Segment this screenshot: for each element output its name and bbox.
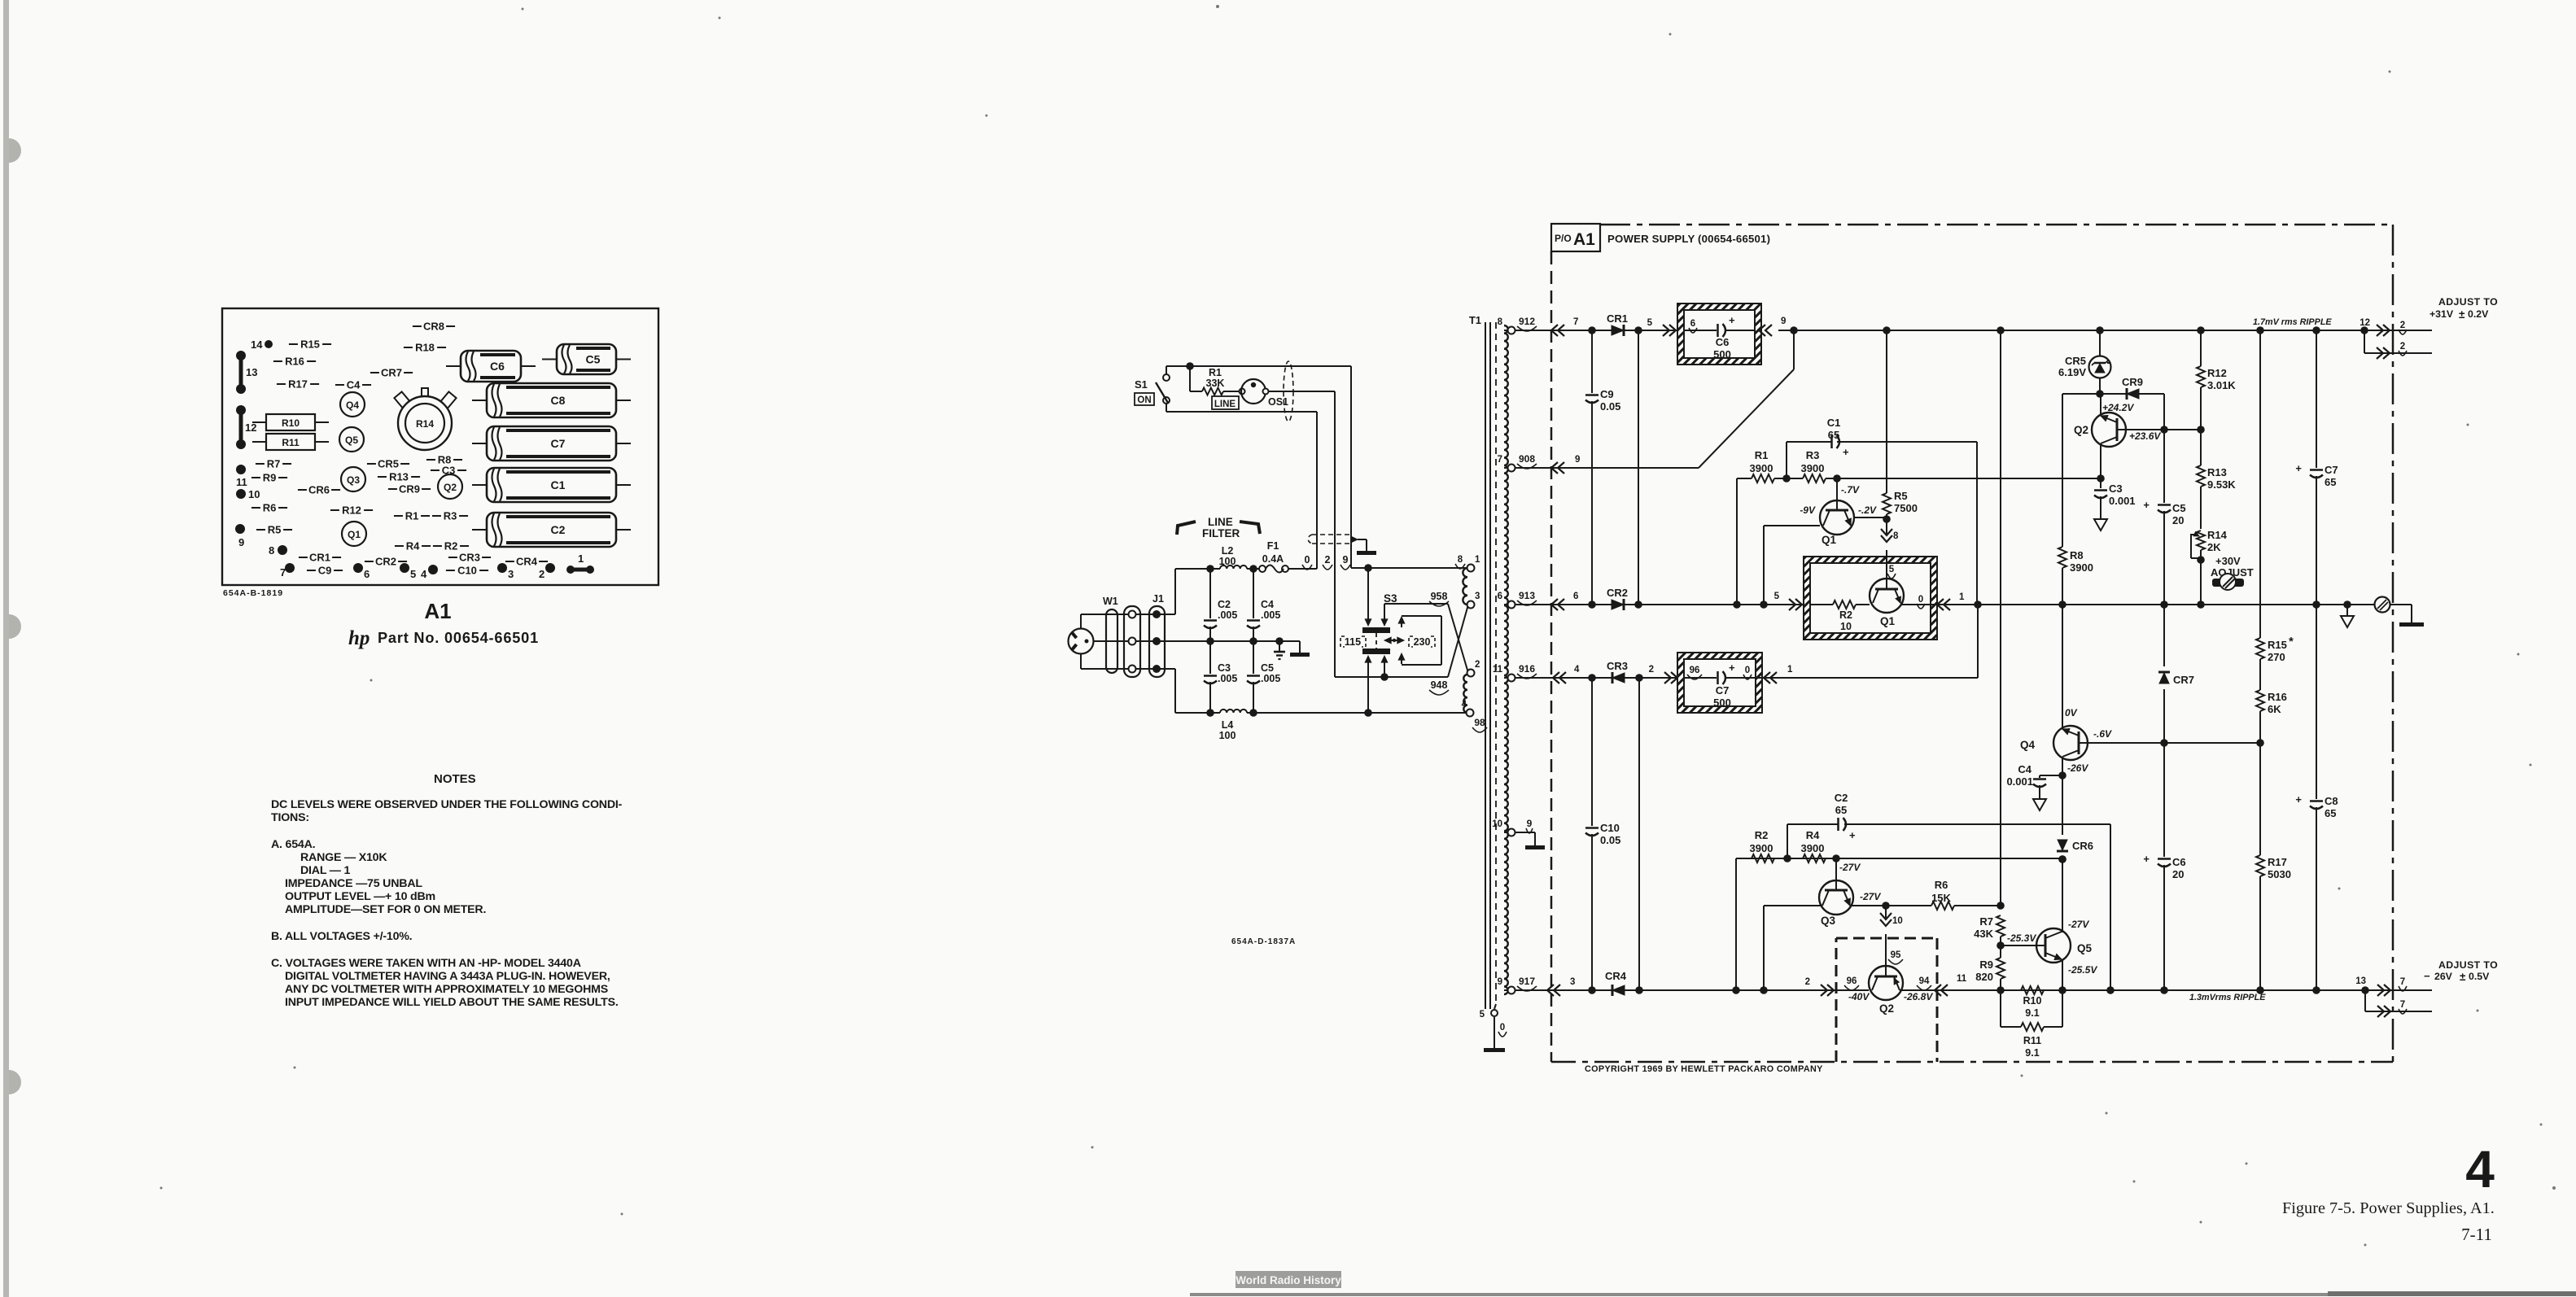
svg-text:FILTER: FILTER [1202, 527, 1240, 539]
connector chevron wire 4 [1559, 672, 1566, 683]
S3 wire from rail down to upper bar [1367, 568, 1369, 623]
board transistor Q2 [438, 474, 462, 499]
junction L4 rail S3 column [1364, 709, 1372, 717]
svg-text:916: 916 [1519, 663, 1535, 675]
resistor R16 6K [2256, 690, 2264, 711]
junction R1 R3 [1782, 474, 1791, 483]
wire R7 feed column [2000, 330, 2001, 904]
svg-text:OUTPUT LEVEL —+ 10 dBm: OUTPUT LEVEL —+ 10 dBm [285, 890, 435, 903]
svg-text:ADJUST TO: ADJUST TO [2438, 959, 2498, 971]
svg-text:11: 11 [236, 476, 247, 488]
connector chevron wire 10 down [1880, 913, 1892, 919]
svg-text:0: 0 [1500, 1023, 1505, 1033]
transformer tap pin 11 wire 916 [1504, 677, 1509, 679]
svg-text:10: 10 [1892, 916, 1903, 926]
wire 908 row and diagonal to +31 rail [1515, 467, 1699, 469]
wire Q1 collector to R5 node [1854, 517, 1887, 518]
svg-text:R9: R9 [1979, 959, 1993, 971]
label ON boxed [1135, 393, 1154, 405]
svg-text:.005: .005 [1261, 673, 1280, 684]
chassis screw terminal [2375, 597, 2390, 613]
capacitor C4 0.001 to ground [2040, 775, 2062, 776]
transistor Q2 (driver) [2092, 413, 2126, 447]
svg-text:-.7V: -.7V [1841, 484, 1860, 496]
svg-text:R7: R7 [267, 458, 281, 470]
svg-text:3: 3 [1570, 977, 1575, 987]
svg-text:C2: C2 [551, 523, 566, 536]
svg-text:917: 917 [1519, 976, 1535, 987]
svg-text:1: 1 [578, 552, 584, 565]
transformer shield pin 5 to ground [1494, 1004, 1496, 1009]
svg-text:Q5: Q5 [2077, 942, 2093, 954]
diode CR7 [2163, 605, 2165, 666]
wire Q1 base row to Q2 collector [1837, 478, 2100, 479]
svg-text:CR4: CR4 [516, 556, 538, 568]
junction CR4 column [1635, 986, 1643, 994]
svg-text:C6: C6 [490, 360, 505, 373]
svg-text:2: 2 [1649, 665, 1654, 675]
svg-text:R15: R15 [2268, 639, 2287, 651]
svg-text:R6: R6 [1935, 879, 1948, 891]
svg-text:+: + [2143, 499, 2150, 511]
svg-text:96: 96 [1847, 976, 1857, 986]
wire +31V rail [1794, 330, 2364, 331]
svg-text:L2: L2 [1222, 545, 1234, 557]
svg-text:Q5: Q5 [345, 435, 358, 446]
svg-text:C5: C5 [586, 353, 601, 366]
junction -26 rail C8col [2312, 986, 2320, 994]
svg-text:5: 5 [1889, 565, 1895, 574]
junction Q5 base [1997, 941, 2005, 950]
junction -26 output corner [2361, 986, 2369, 994]
resistor R1 33K [1189, 366, 1191, 391]
svg-text:Q4: Q4 [2020, 739, 2036, 751]
svg-text:3900: 3900 [1801, 842, 1825, 854]
svg-text:11: 11 [1957, 974, 1967, 984]
svg-text:8: 8 [269, 544, 274, 557]
svg-text:3900: 3900 [1750, 842, 1773, 854]
transformer core lines [1485, 322, 1486, 1009]
filter earth ground [1275, 637, 1284, 645]
wire Q3 collector to R6 [1852, 905, 1886, 906]
svg-text:R2: R2 [1755, 829, 1769, 841]
svg-text:6.19V: 6.19V [2058, 366, 2086, 378]
svg-text:R5: R5 [268, 524, 282, 536]
diode CR2 [1612, 600, 1624, 609]
page bottom edge shadow [1190, 1293, 2576, 1296]
svg-text:A1: A1 [424, 599, 451, 623]
svg-text:9: 9 [1343, 554, 1349, 566]
capacitor C2 (board) [487, 513, 616, 547]
svg-text:R13: R13 [2207, 466, 2227, 478]
junction C9 bottom [1588, 600, 1596, 609]
svg-text:9.1: 9.1 [2025, 1007, 2039, 1019]
svg-text:8: 8 [1458, 555, 1463, 565]
wire CR9 row [2062, 393, 2100, 395]
svg-text:R14: R14 [416, 418, 434, 430]
binding notch 3 [9, 1070, 21, 1094]
diode CR6 [2058, 840, 2067, 850]
svg-text:S3: S3 [1384, 592, 1397, 605]
wire 1 return to 0V rail [1756, 677, 1978, 679]
svg-text:C1: C1 [551, 478, 566, 491]
capacitor C5 .005 [1253, 641, 1254, 674]
svg-text:15K: 15K [1931, 892, 1951, 904]
svg-text:5030: 5030 [2268, 868, 2291, 880]
svg-text:0.5V: 0.5V [2469, 971, 2490, 982]
svg-text:0V: 0V [2065, 707, 2078, 718]
wire Q3 base row [1736, 858, 2064, 859]
svg-text:7: 7 [1573, 317, 1578, 327]
junction -26 rail R10R11 [2058, 986, 2066, 994]
svg-text:R12: R12 [2207, 367, 2227, 379]
svg-text:8: 8 [1893, 531, 1899, 541]
svg-text:Q1: Q1 [1822, 534, 1837, 546]
svg-text:Q2: Q2 [2074, 424, 2088, 436]
svg-text:-27V: -27V [1860, 891, 1881, 902]
jack J1 face [1124, 606, 1140, 677]
svg-text:±: ± [2460, 971, 2466, 983]
connector chevron wire 2 (916 row) [1664, 672, 1671, 683]
wire fuse to riser [1288, 568, 1317, 570]
svg-text:820: 820 [1975, 971, 1993, 983]
junction bottom C5 [1249, 709, 1257, 717]
svg-text:0.2V: 0.2V [2468, 308, 2489, 320]
wire R15 column upper [2259, 330, 2261, 638]
junction R2 3900 column base [1732, 986, 1740, 994]
svg-text:115: 115 [1345, 636, 1361, 648]
svg-text:7500: 7500 [1894, 502, 1918, 514]
svg-text:2: 2 [1325, 554, 1331, 566]
junction bottom C3 [1206, 709, 1214, 717]
resistor R2 10 [1810, 604, 1833, 605]
svg-text:LINE: LINE [1214, 400, 1236, 409]
svg-text:W1: W1 [1103, 596, 1118, 607]
plug W1 face [1069, 629, 1094, 654]
svg-text:500: 500 [1713, 348, 1731, 360]
svg-text:3: 3 [1475, 592, 1480, 601]
svg-text:ON: ON [1137, 395, 1151, 405]
junction -26 rail R17col [2256, 986, 2264, 994]
junction pin1 rail to S3 [1364, 564, 1372, 572]
connector chevron wire 5 (913 row) [1789, 599, 1795, 610]
capacitor C1 (board) [487, 468, 616, 502]
svg-text:Q3: Q3 [1821, 915, 1836, 927]
svg-text:20: 20 [2172, 868, 2184, 880]
wire CR6 to Q5 collector [2062, 859, 2063, 932]
A1 border left dashed [1550, 251, 1553, 1062]
+31V output second line [2364, 330, 2365, 353]
svg-text:11: 11 [1493, 665, 1503, 675]
svg-text:R8: R8 [2070, 549, 2084, 561]
junction mid C2 [1206, 637, 1214, 645]
svg-text:R13: R13 [389, 471, 409, 483]
S3 loop top edge [1384, 603, 1448, 605]
board pad 3 [497, 563, 507, 573]
junction R12 R13 [2197, 426, 2205, 434]
P/O A1 title box [1551, 224, 1600, 251]
junction C4 tee [2058, 771, 2066, 780]
svg-text:R4: R4 [1806, 829, 1820, 841]
S3 230 contact box [1402, 615, 1441, 617]
wire Q4 emitter down [2062, 758, 2063, 775]
resistor R2 3900 (lower) [1735, 858, 1737, 990]
junction R6 R7 [1997, 902, 2005, 910]
svg-text:95: 95 [1891, 950, 1901, 960]
svg-text:A1: A1 [1573, 230, 1595, 249]
chassis capacitor C6 500 hatched box [1677, 304, 1761, 365]
svg-text:R9: R9 [263, 472, 277, 484]
svg-text:CR9: CR9 [399, 483, 420, 496]
svg-text:2: 2 [1805, 977, 1810, 987]
junction Q3 base [1832, 854, 1840, 862]
wire Q2 base row [2126, 429, 2201, 430]
lamp shield dashed ellipse [1284, 361, 1293, 421]
svg-text:4: 4 [1574, 665, 1580, 675]
svg-text:R6: R6 [263, 502, 277, 514]
0V rail chassis ground [2390, 604, 2412, 605]
svg-text:AMPLITUDE—SET FOR 0 ON METER.: AMPLITUDE—SET FOR 0 ON METER. [285, 903, 486, 916]
plug W1 body [1106, 609, 1117, 673]
svg-text:-25.3V: -25.3V [2007, 932, 2036, 944]
junction Q3 out chevron10 [1882, 902, 1890, 910]
capacitor C4 .005 [1253, 569, 1254, 618]
svg-text:CR4: CR4 [1605, 970, 1627, 982]
svg-text:C8: C8 [2325, 795, 2338, 807]
capacitor C10 0.05 [1591, 678, 1593, 826]
svg-text:C1: C1 [1827, 417, 1841, 429]
resistor R11 9.1 parallel loop [2000, 990, 2001, 1027]
svg-text:6: 6 [364, 568, 370, 580]
svg-text:C8: C8 [551, 394, 566, 407]
fuse F1 0.4A [1259, 566, 1266, 572]
junction +31 CR5col [2096, 326, 2104, 334]
svg-text:-.6V: -.6V [2093, 728, 2112, 740]
board jumper 12 [236, 405, 246, 415]
svg-text:S1: S1 [1135, 378, 1148, 391]
svg-text:65: 65 [2325, 476, 2336, 488]
wire filter mid rail [1159, 640, 1300, 642]
S3 upper contact bar [1362, 627, 1390, 633]
wire 916 row [1515, 677, 1677, 679]
junction CR3 column [1635, 674, 1643, 682]
svg-text:7: 7 [1498, 455, 1502, 465]
capacitor C7 65 [2316, 330, 2317, 468]
svg-text:1: 1 [1475, 555, 1480, 565]
svg-text:.005: .005 [1261, 609, 1280, 621]
dust specks [1216, 5, 1219, 8]
junction R5 bottom [1883, 515, 1891, 523]
junction C9 top [1588, 326, 1596, 334]
shield ground arrow [1351, 536, 1358, 543]
svg-text:913: 913 [1519, 590, 1535, 601]
svg-text:908: 908 [1519, 453, 1535, 465]
svg-text:0.05: 0.05 [1600, 834, 1620, 846]
svg-text:5: 5 [1774, 592, 1780, 601]
label LINE boxed [1212, 396, 1239, 409]
svg-text:12: 12 [245, 421, 256, 434]
svg-text:-27V: -27V [2068, 919, 2089, 930]
svg-text:OS1: OS1 [1268, 396, 1288, 408]
wire plug to J1 middle [1093, 640, 1157, 642]
junction CR7 column rail [2160, 600, 2168, 609]
svg-text:3.01K: 3.01K [2207, 379, 2236, 391]
svg-text:NOTES: NOTES [434, 772, 476, 786]
svg-text:CR8: CR8 [423, 321, 444, 333]
svg-text:7-11: 7-11 [2461, 1225, 2492, 1244]
svg-text:C. VOLTAGES WERE TAKEN W: C. VOLTAGES WERE TAKEN WITH AN -HP- MODE… [271, 957, 581, 970]
svg-text:R11: R11 [282, 437, 300, 448]
svg-text:J1: J1 [1152, 593, 1164, 605]
svg-text:4: 4 [1462, 700, 1467, 710]
svg-text:C10: C10 [1600, 822, 1620, 834]
svg-text:R17: R17 [288, 378, 308, 391]
svg-text:C7: C7 [1716, 684, 1730, 697]
connector chevron wire 8 down [1881, 529, 1892, 535]
svg-text:Q3: Q3 [347, 474, 360, 486]
resistor R5 7500 [1886, 330, 1887, 493]
junction R8 column rail [2058, 600, 2066, 609]
svg-text:*: * [2289, 635, 2294, 648]
binding notch 2 [9, 614, 21, 639]
svg-text:R1: R1 [1209, 367, 1222, 378]
svg-text:+31V: +31V [2429, 308, 2454, 320]
svg-text:1.7mV rms RIPPLE: 1.7mV rms RIPPLE [2253, 317, 2332, 327]
svg-text:Q1: Q1 [1880, 615, 1896, 627]
transformer tap pin 8 wire 912 [1504, 330, 1509, 331]
svg-text:C5: C5 [1261, 662, 1274, 674]
svg-text:1: 1 [1787, 665, 1793, 675]
svg-text:9.53K: 9.53K [2207, 478, 2236, 491]
transformer primary pin 1 [1467, 565, 1475, 572]
junction wire1 branch [1974, 600, 1982, 609]
svg-text:0.001: 0.001 [2109, 495, 2136, 507]
S3 bar link dashed [1375, 633, 1377, 648]
transistor Q4 [2062, 605, 2063, 728]
svg-text:CR7: CR7 [381, 367, 402, 379]
svg-text:65: 65 [1835, 804, 1847, 816]
wire filter top rail [1159, 614, 1175, 615]
connector chevron wire 9 (912 row) [1765, 325, 1772, 336]
ground arrow on 0V rail [2346, 605, 2348, 616]
svg-text:-26V: -26V [2067, 762, 2088, 774]
transformer primary pin 3 [1467, 601, 1475, 609]
svg-text:65: 65 [1828, 429, 1839, 441]
svg-text:C6: C6 [2172, 856, 2186, 868]
svg-text:R1: R1 [1755, 449, 1769, 461]
resistor R4 3900 (lower) [1803, 854, 1826, 862]
junction CR5 CR9 [2096, 390, 2104, 398]
svg-text:13: 13 [2355, 976, 2366, 986]
svg-text:R4: R4 [406, 540, 420, 552]
connector chevron wire 2 (917 row) [1821, 985, 1827, 996]
pin 10 ground [1515, 832, 1535, 833]
transistor Q5 [2001, 945, 2036, 946]
wire Q1 base entry [1886, 519, 1887, 534]
svg-text:B. ALL VOLTAGES +/-10%.: B. ALL VOLTAGES +/-10%. [271, 930, 412, 943]
svg-text:654A-D-1837A: 654A-D-1837A [1231, 937, 1296, 946]
resistor R8 3900 [2062, 394, 2063, 547]
svg-text:230: 230 [1414, 636, 1431, 648]
junction 912 to +31 rail [1790, 326, 1798, 334]
board resistor R10 [266, 414, 315, 430]
capacitor C8 65 [2316, 605, 2317, 799]
svg-text:+: + [2295, 793, 2302, 806]
svg-text:3900: 3900 [2070, 561, 2093, 574]
svg-text:6: 6 [1573, 592, 1578, 601]
capacitor C9 0.05 [1591, 330, 1593, 393]
board transistor Q1 [342, 522, 366, 546]
wire 917 row -26V rail [1515, 989, 1869, 991]
svg-text:912: 912 [1519, 316, 1535, 327]
svg-text:World Radio History: World Radio History [1236, 1274, 1341, 1286]
svg-text:-.2V: -.2V [1858, 504, 1877, 516]
svg-text:COPYRIGHT 1969 BY HEWLETT PACK: COPYRIGHT 1969 BY HEWLETT PACKARO COMPAN… [1585, 1064, 1823, 1074]
svg-text:96: 96 [1690, 666, 1700, 675]
svg-text:20: 20 [2172, 514, 2184, 526]
svg-text:1: 1 [1959, 592, 1965, 602]
svg-text:R11: R11 [2023, 1035, 2041, 1046]
resistor R10 9.1 [2021, 986, 2044, 994]
svg-text:C4: C4 [1261, 599, 1274, 610]
S3 slide arrows [1384, 637, 1391, 644]
board transistor Q4 [340, 392, 365, 417]
resistor R6 15K [1931, 902, 1954, 910]
junction +31 R12col [2197, 326, 2205, 334]
svg-text:0.4A: 0.4A [1262, 553, 1284, 565]
svg-text:L4: L4 [1222, 719, 1234, 731]
capacitor C8 (board) [487, 383, 616, 417]
svg-text:CR6: CR6 [308, 484, 330, 496]
potentiometer R14 2K [2197, 531, 2205, 550]
power transistor Q2 dashed box [1835, 938, 1838, 1062]
connector chevron wire 9 (908 row) [1558, 462, 1564, 474]
svg-text:+: + [1729, 662, 1735, 674]
junction filter top C4 [1249, 565, 1257, 573]
svg-text:CR5: CR5 [2065, 355, 2086, 367]
svg-text:−: − [2424, 970, 2430, 982]
junction CR2 out [1634, 600, 1642, 609]
svg-text:-26.8V: -26.8V [1904, 991, 1933, 1002]
A1 border right dash-dot [2392, 225, 2394, 1062]
svg-text:100: 100 [1219, 730, 1236, 741]
svg-text:10: 10 [1492, 819, 1502, 829]
svg-text:CR1: CR1 [309, 552, 330, 564]
svg-text:10: 10 [248, 488, 260, 500]
board pad 6 [353, 563, 363, 573]
svg-text:C4: C4 [2018, 763, 2031, 775]
svg-text:2: 2 [1475, 660, 1480, 670]
svg-text:R2: R2 [1839, 609, 1852, 621]
connector chevron wire 3 [1554, 985, 1560, 996]
svg-text:R12: R12 [342, 504, 361, 517]
svg-text:43K: 43K [1974, 928, 1993, 940]
svg-text:R10: R10 [2023, 995, 2042, 1007]
page binding edge band [3, 0, 9, 1297]
svg-text:9: 9 [1498, 977, 1502, 987]
junction C10 bottom [1588, 986, 1596, 994]
svg-text:RANGE — X10K: RANGE — X10K [300, 851, 387, 864]
svg-text:+: + [1729, 314, 1735, 326]
svg-text:7: 7 [2400, 977, 2405, 987]
junction CR7 Q4 base row [2160, 739, 2168, 747]
wire 0V output rail [1900, 604, 2375, 605]
S3 cross wires to primary [1448, 604, 1468, 673]
wire C1 row [1787, 441, 1832, 443]
capacitor C6 (board) [461, 351, 521, 382]
svg-text:9: 9 [1527, 818, 1533, 829]
junction CR9 Q2 base [2160, 426, 2168, 434]
